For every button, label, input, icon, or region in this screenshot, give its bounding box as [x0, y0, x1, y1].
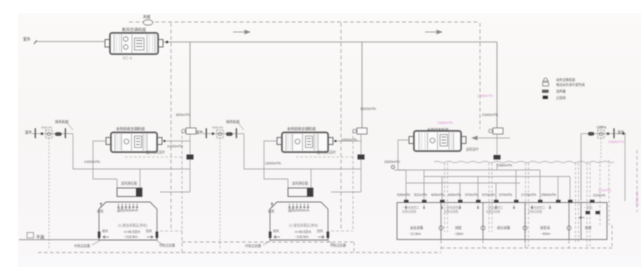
svg-text:高效过滤器: 高效过滤器	[486, 210, 500, 214]
svg-text:1600m³/h: 1600m³/h	[360, 107, 376, 111]
svg-text:送风静压箱: 送风静压箱	[121, 181, 138, 186]
svg-text:210m³/h: 210m³/h	[593, 194, 606, 198]
svg-text:全热回收空调机组: 全热回收空调机组	[116, 126, 145, 131]
svg-text:采浆间: 采浆间	[540, 225, 550, 230]
svg-text:530m³/h: 530m³/h	[397, 193, 410, 197]
svg-text:1570m³/h: 1570m³/h	[636, 191, 640, 206]
svg-text:高效过滤器: 高效过滤器	[402, 210, 416, 214]
svg-text:135Pa: 135Pa	[597, 125, 607, 129]
svg-text:电动对开多叶调节阀: 电动对开多叶调节阀	[556, 82, 585, 87]
svg-text:n=46.5次/h: n=46.5次/h	[124, 229, 140, 234]
svg-text:800m³/h: 800m³/h	[176, 113, 190, 117]
svg-text:1588m³/h: 1588m³/h	[608, 140, 624, 144]
svg-text:室外: 室外	[23, 37, 31, 42]
svg-text:排风机组: 排风机组	[55, 119, 69, 124]
svg-text:521m³/h: 521m³/h	[414, 193, 427, 197]
svg-text:送风2000m³/h: 送风2000m³/h	[117, 208, 138, 213]
svg-text:1770m³/h: 1770m³/h	[521, 193, 536, 197]
svg-text:1588m³/h: 1588m³/h	[477, 94, 493, 98]
svg-text:回风: 回风	[146, 229, 152, 233]
svg-text:室外排风百叶: 室外排风百叶	[146, 150, 166, 155]
svg-text:高效过滤器: 高效过滤器	[528, 210, 542, 214]
svg-text:210m³/h: 210m³/h	[598, 189, 611, 193]
svg-text:全血采集: 全血采集	[410, 225, 424, 230]
svg-text:待检: 待检	[455, 225, 462, 230]
svg-text:高效过滤器: 高效过滤器	[444, 210, 458, 214]
svg-text:~11.6m²: ~11.6m²	[409, 232, 422, 236]
svg-text:1600m³/h: 1600m³/h	[265, 162, 281, 166]
svg-text:风帽: 风帽	[143, 14, 151, 19]
svg-text:机房: 机房	[585, 225, 592, 230]
svg-text:消声器: 消声器	[556, 89, 566, 94]
svg-text:室外: 室外	[25, 130, 32, 135]
svg-text:成分采集: 成分采集	[497, 225, 511, 230]
svg-text:570m³/h: 570m³/h	[465, 193, 478, 197]
svg-text:排风: 排风	[97, 209, 104, 214]
svg-text:排风: 排风	[102, 228, 108, 233]
svg-text:中效过滤器: 中效过滤器	[74, 243, 91, 248]
svg-text:400m³/h: 400m³/h	[448, 193, 461, 197]
svg-text:(1) 献血采集区(净化): (1) 献血采集区(净化)	[118, 223, 147, 228]
svg-text:送风百叶: 送风百叶	[466, 147, 480, 152]
svg-text:全热回收机组: 全热回收机组	[427, 127, 449, 132]
svg-text:2500m³/h: 2500m³/h	[541, 193, 556, 197]
svg-text:~118.5m²: ~118.5m²	[124, 235, 139, 239]
svg-text:~90m²: ~90m²	[541, 232, 551, 236]
svg-text:一体化: 一体化	[584, 206, 593, 210]
svg-text:全热交换机组: 全热交换机组	[556, 77, 576, 82]
svg-text:430m³/h: 430m³/h	[41, 125, 52, 129]
svg-text:~18m²: ~18m²	[454, 232, 464, 236]
svg-text:中效过滤器: 中效过滤器	[159, 243, 176, 248]
svg-text:570m³/h: 570m³/h	[499, 193, 512, 197]
svg-text:新风空调机组: 新风空调机组	[122, 26, 146, 32]
svg-text:1400m³/h: 1400m³/h	[84, 160, 100, 164]
svg-text:止回阀: 止回阀	[556, 95, 566, 100]
svg-text:570m³/h: 570m³/h	[482, 193, 495, 197]
svg-text:XC-4: XC-4	[123, 56, 133, 61]
svg-text:2580m³/h: 2580m³/h	[497, 164, 512, 168]
svg-text:1588m³/h: 1588m³/h	[437, 121, 453, 125]
svg-text:400m³/h: 400m³/h	[431, 193, 444, 197]
svg-text:2340m³/h: 2340m³/h	[482, 113, 498, 117]
svg-text:1600m³/h: 1600m³/h	[341, 138, 357, 142]
svg-text:1600m³/h: 1600m³/h	[384, 160, 400, 164]
svg-text:1400m³/h: 1400m³/h	[167, 145, 183, 149]
